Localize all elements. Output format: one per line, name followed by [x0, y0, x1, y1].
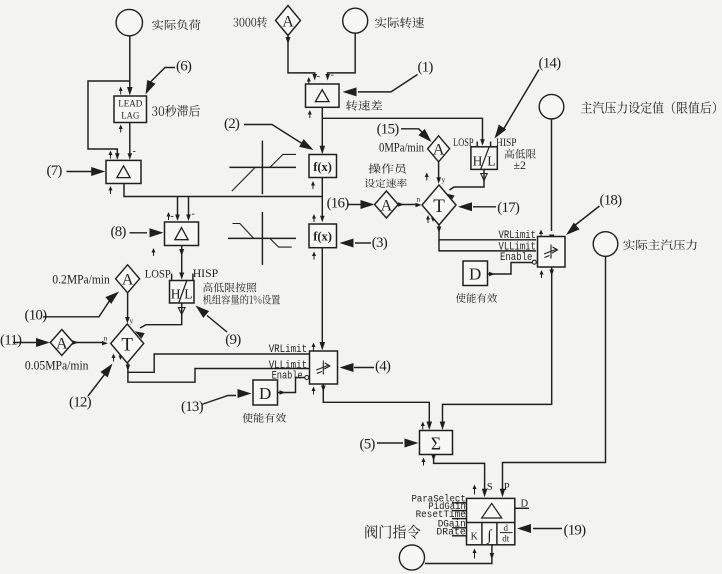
svg-text:A: A	[381, 197, 393, 214]
svg-text:-: -	[171, 211, 174, 222]
block U18 pressure setpoint rate limiter	[538, 237, 566, 268]
label D output pin	[515, 498, 529, 509]
svg-text:P: P	[504, 482, 510, 493]
label 使能有效 (U18 D)	[456, 293, 497, 303]
label 高低限	[505, 149, 536, 159]
block U6 LEAD/LAG	[114, 96, 147, 123]
block U19 PID controller	[467, 498, 515, 544]
node circle 实际转速 (actual speed)	[343, 8, 368, 33]
block U5 summator Σ	[420, 431, 453, 455]
label 0.05MPa/min	[25, 359, 89, 373]
tiny arrow below LEAD/LAG	[119, 125, 123, 133]
svg-text:n: n	[104, 334, 108, 343]
label (16) node	[327, 195, 350, 211]
svg-text:(10): (10)	[25, 308, 48, 324]
tiny arrow below U7	[109, 186, 113, 194]
pin tick LOSP U9	[171, 274, 173, 281]
svg-text:(7): (7)	[47, 163, 63, 179]
label HISP (U14)	[496, 137, 517, 149]
svg-text:(8): (8)	[111, 224, 127, 240]
svg-text:Σ: Σ	[431, 433, 441, 453]
svg-text:VRLimit: VRLimit	[499, 230, 536, 242]
tiny arrow below fx2	[311, 181, 315, 189]
svg-text:A: A	[122, 272, 134, 289]
wire D13 to U4 enable	[278, 376, 309, 395]
pointer (9) to U9	[196, 306, 242, 349]
svg-text:n: n	[417, 195, 421, 204]
pointer (17) to T17	[458, 200, 520, 216]
svg-text:(5): (5)	[360, 437, 376, 453]
wire A3000 to U1	[286, 36, 321, 83]
pointer (5) to Σ	[360, 437, 419, 453]
wire actual pressure to PID P	[500, 256, 606, 497]
graph inverse deadband for U3	[228, 212, 296, 265]
tiny arrows at T17	[425, 173, 435, 224]
label LOSP (U9)	[145, 267, 171, 281]
svg-text:LEAD: LEAD	[118, 100, 142, 110]
svg-text:0MPa/min: 0MPa/min	[379, 141, 425, 155]
label DRate	[436, 527, 466, 538]
block A3000 speed reference diamond	[276, 6, 301, 36]
pointer (11) to A11	[0, 333, 50, 349]
block A15 rate constant diamond	[428, 136, 450, 162]
wire U7 output bus to node 16	[124, 184, 322, 197]
pointer (12) to T12	[69, 364, 113, 411]
label 实际主汽压力	[623, 240, 697, 250]
tiny arrow above U1	[307, 77, 311, 85]
svg-text:T: T	[433, 196, 445, 217]
pointer (10) to A10	[25, 292, 120, 324]
label VLLimit (U4)	[269, 360, 307, 372]
svg-text:f(x): f(x)	[313, 160, 332, 174]
svg-text:L: L	[184, 287, 192, 302]
tiny arrow below Σ	[422, 458, 426, 466]
block U1 speed difference Δ	[306, 84, 340, 107]
svg-text:y: y	[130, 316, 134, 325]
label 0.2MPa/min	[52, 272, 110, 286]
wire feedback loop around LEAD/LAG	[88, 81, 130, 160]
pointer (7) to U7	[47, 163, 106, 179]
wire U9 output to T12	[135, 303, 185, 339]
label LOSP (U14)	[453, 137, 474, 149]
svg-text:0.05MPa/min: 0.05MPa/min	[25, 359, 89, 373]
pointer (2) to fx2	[224, 116, 314, 150]
svg-text:(2): (2)	[224, 116, 240, 132]
pin tick HISP U9	[192, 274, 194, 281]
wire T12 output VRLimit to U4	[126, 354, 309, 372]
tiny arrow below U18	[540, 270, 544, 278]
tiny arrow below PID	[473, 549, 477, 559]
label 转速差	[346, 100, 382, 110]
node circle 实际主汽压力	[593, 232, 618, 257]
tiny arrow above Σ	[421, 422, 425, 430]
tiny arrow above U7	[109, 151, 113, 159]
label 0MPa/min	[379, 141, 425, 155]
block T12 transfer switch	[111, 324, 144, 363]
wire speed-diff bus to H/L14	[322, 118, 485, 146]
pointer (19) to PID	[517, 523, 586, 539]
wire setpoint circle to U18	[549, 119, 554, 242]
svg-text:y: y	[442, 175, 446, 184]
svg-text:(12): (12)	[69, 395, 92, 411]
svg-text:(13): (13)	[181, 399, 204, 415]
label Enable (U18)	[500, 252, 532, 264]
svg-text:(9): (9)	[225, 332, 241, 348]
node circle 阀门指令 (valve command)	[399, 545, 424, 570]
svg-text:(14): (14)	[539, 56, 562, 72]
pointer (6) to LEAD/LAG	[146, 59, 192, 95]
svg-text:HISP: HISP	[496, 137, 517, 149]
block A16 operator rate diamond	[375, 191, 399, 218]
pointer (18) to U18	[566, 193, 622, 236]
svg-text:(6): (6)	[176, 59, 192, 75]
pin tick LOSP U14	[476, 142, 478, 147]
svg-text:(15): (15)	[377, 121, 400, 137]
svg-text:f(x): f(x)	[313, 230, 332, 244]
block U4 setpoint rate limiter	[310, 351, 338, 384]
label 操作员	[368, 163, 405, 173]
wire PID output to valve circle	[425, 545, 494, 564]
label VLLimit (U18)	[499, 242, 536, 254]
svg-text:D: D	[259, 384, 271, 403]
label 30秒滞后	[152, 105, 200, 117]
wire U8 to H/L U9	[179, 246, 184, 280]
pointer (13b) wire D to U18 enable	[488, 260, 537, 276]
tiny arrow below U8	[152, 248, 156, 256]
svg-text:A: A	[56, 335, 68, 352]
block U2 function f(x)	[309, 155, 337, 178]
pointer (15) to A15	[377, 121, 432, 142]
svg-text:-: -	[331, 70, 334, 81]
svg-text:DRate: DRate	[436, 527, 465, 538]
svg-text:(4): (4)	[375, 359, 391, 375]
pointer (3) to fx3	[340, 235, 388, 251]
wire fx2 to node16/fx3	[320, 178, 325, 223]
wire U18 output to Σ	[440, 267, 554, 430]
label 阀门指令	[365, 525, 420, 539]
tiny arrow above LEAD/LAG	[119, 87, 123, 95]
block U3 function f(x)	[309, 224, 337, 248]
label S pin	[487, 482, 493, 493]
svg-text:LAG: LAG	[121, 112, 139, 122]
label 主汽压力设定值（限值后）	[581, 101, 716, 113]
svg-text:d: d	[504, 523, 509, 533]
node circle 实际负荷 (actual load input)	[116, 9, 142, 35]
tiny arrow above U18	[539, 230, 543, 238]
wire A15 to T17 top	[436, 162, 445, 184]
svg-text:HISP: HISP	[193, 266, 219, 280]
tiny arrow left of S pin	[473, 485, 477, 495]
wire T12 output VLLimit to U4	[128, 369, 309, 383]
label HISP (U9)	[193, 266, 219, 280]
block U7 subtractor Δ	[106, 160, 141, 183]
svg-text:(18): (18)	[600, 193, 623, 209]
wire T17 output VLLimit to U18	[439, 240, 536, 251]
svg-text:L: L	[487, 154, 495, 169]
tiny arrow above U8	[167, 212, 171, 220]
wire fx3 to U4 top	[320, 248, 326, 351]
wire U14 output to T17	[445, 169, 487, 201]
block T17 transfer switch	[422, 185, 456, 225]
wire T17 output VRLimit to U18	[437, 225, 536, 240]
block U9 high/low limiter H/L	[170, 280, 195, 304]
wire LEAD/LAG to subtractor U7	[128, 123, 136, 160]
block D13 digital enable	[253, 380, 278, 405]
svg-text:0.2MPa/min: 0.2MPa/min	[52, 272, 110, 286]
label 机组容量的1%设置	[203, 294, 280, 304]
pointer (1) to U1	[343, 60, 434, 97]
svg-text:VRLimit: VRLimit	[269, 344, 307, 356]
pointer (4) to U4	[340, 359, 391, 375]
svg-text:T: T	[121, 334, 133, 355]
block A10 rate constant diamond	[116, 265, 140, 293]
wire A16 to T17	[398, 195, 422, 208]
label ±2	[514, 160, 527, 172]
label ParaSelect	[412, 493, 467, 505]
wire U4 output to Σ	[321, 384, 432, 430]
svg-text:(1): (1)	[418, 60, 434, 76]
svg-text:A: A	[282, 13, 294, 30]
svg-text:S: S	[487, 482, 493, 493]
label 使能有效 (D13)	[242, 413, 286, 423]
wire U1 output to fx2	[320, 107, 326, 154]
block D-enable for U18	[463, 261, 488, 286]
label VRLimit (U4)	[269, 344, 307, 356]
svg-text:D: D	[469, 265, 481, 284]
tiny arrow below U4	[312, 387, 316, 395]
wire tap into U8 minus 1	[171, 197, 180, 223]
wire A11 to T12 left	[73, 334, 109, 346]
svg-text:H: H	[473, 154, 483, 169]
svg-text:(17): (17)	[497, 200, 520, 216]
pointer (14) to U14	[495, 56, 562, 139]
node circle 主汽压力设定值	[539, 94, 564, 119]
block U8 subtractor Δ	[165, 222, 199, 246]
svg-text:-: -	[317, 71, 320, 82]
tiny arrows at T12 left	[112, 330, 123, 362]
wire speed circle to U1	[325, 33, 355, 80]
label 实际转速	[375, 17, 424, 28]
svg-text:(11): (11)	[0, 333, 22, 349]
label 3000转	[234, 16, 267, 27]
label PidGain	[428, 501, 466, 513]
pin tick HISP U14	[490, 142, 492, 147]
wire node16 to A16	[348, 200, 375, 209]
svg-text:dt: dt	[502, 534, 510, 544]
label ResetTime	[416, 509, 467, 521]
pointer (8) to U8	[111, 224, 164, 240]
svg-text:±2: ±2	[514, 160, 527, 172]
svg-text:LOSP: LOSP	[145, 267, 171, 281]
tiny arrow above U4	[312, 343, 316, 351]
label 实际负荷	[152, 19, 201, 30]
label 高低限按照	[203, 282, 256, 292]
svg-text:H: H	[171, 287, 181, 302]
graph deadband+saturation for U2	[229, 141, 296, 195]
svg-text:-: -	[192, 209, 195, 220]
svg-text:-: -	[133, 146, 136, 157]
label VRLimit (U18)	[499, 230, 536, 242]
tiny arrow below U1	[308, 110, 312, 118]
label Enable (U4)	[272, 371, 303, 383]
wire A10 to T12 top	[125, 293, 133, 325]
tiny arrows around fx3	[312, 214, 316, 260]
block U14 high/low limiter H/L	[471, 147, 497, 170]
svg-text:(16): (16)	[327, 195, 350, 211]
wire actual-load circle to LEAD/LAG	[127, 36, 133, 96]
block A11 rate constant diamond	[50, 330, 73, 356]
svg-text:K: K	[471, 532, 479, 543]
svg-text:A: A	[433, 142, 445, 159]
wire tap into U8 minus 2	[186, 197, 195, 222]
label P pin	[504, 482, 510, 493]
wire Σ output to PID S	[431, 455, 487, 498]
svg-text:(3): (3)	[372, 235, 388, 251]
label DGain	[438, 518, 467, 530]
pointer (13) to D13	[181, 389, 252, 415]
label 设定速率	[365, 178, 407, 187]
svg-text:(19): (19)	[564, 523, 587, 539]
